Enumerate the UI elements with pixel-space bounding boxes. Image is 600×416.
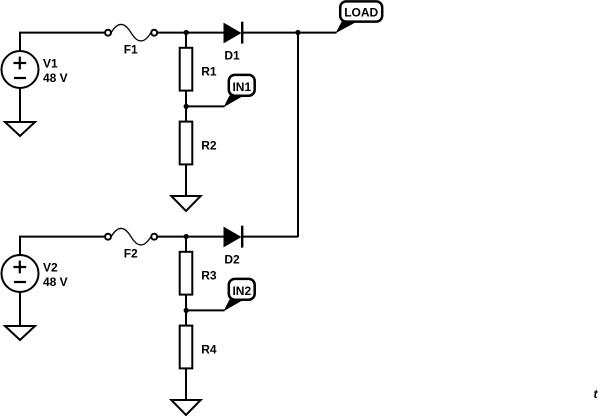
node junction LOAD	[295, 30, 300, 35]
svg-text:V2: V2	[43, 261, 58, 275]
wire	[157, 236, 224, 238]
wire	[185, 164, 187, 196]
diode D2	[224, 226, 242, 267]
ground	[5, 326, 35, 340]
diode D1	[224, 22, 242, 63]
node junction	[184, 30, 189, 35]
net label IN2	[224, 279, 255, 311]
svg-text:V1: V1	[43, 57, 58, 71]
node junction IN1	[184, 104, 189, 109]
node junction	[184, 234, 189, 239]
wire	[20, 33, 105, 51]
wire	[186, 309, 225, 311]
resistor R1	[180, 48, 217, 91]
wire	[186, 105, 225, 107]
ground	[171, 400, 200, 415]
wire	[185, 91, 187, 122]
ground	[5, 122, 35, 136]
svg-text:D1: D1	[224, 49, 240, 63]
resistor R2	[180, 122, 217, 165]
svg-text:R3: R3	[201, 269, 217, 283]
fuse F1	[105, 24, 157, 56]
svg-text:F1: F1	[124, 43, 138, 57]
wire	[243, 236, 298, 238]
wire	[185, 295, 187, 326]
wire	[20, 237, 105, 255]
resistor R4	[180, 326, 217, 369]
resistor R3	[180, 252, 217, 295]
svg-text:IN1: IN1	[232, 80, 251, 94]
wire	[243, 32, 298, 34]
node junction IN2	[184, 308, 189, 313]
voltage source V2	[2, 255, 68, 292]
svg-text:R2: R2	[201, 138, 217, 152]
ground	[171, 196, 200, 211]
wire	[19, 88, 21, 122]
net label LOAD	[336, 1, 383, 33]
wire	[298, 32, 337, 34]
svg-text:48 V: 48 V	[43, 71, 68, 85]
voltage source V1	[2, 51, 68, 88]
fuse F2	[105, 228, 157, 260]
svg-text:R1: R1	[201, 65, 217, 79]
wire	[185, 237, 187, 252]
svg-text:LOAD: LOAD	[344, 6, 378, 20]
svg-text:D2: D2	[224, 253, 240, 267]
svg-text:R4: R4	[201, 342, 217, 356]
wire	[185, 368, 187, 400]
svg-text:48 V: 48 V	[43, 275, 68, 289]
net label IN1	[224, 75, 255, 107]
wire	[185, 33, 187, 48]
svg-text:F2: F2	[124, 247, 138, 261]
wire	[297, 33, 299, 237]
svg-text:IN2: IN2	[232, 284, 251, 298]
wire	[157, 32, 224, 34]
wire	[19, 292, 21, 326]
